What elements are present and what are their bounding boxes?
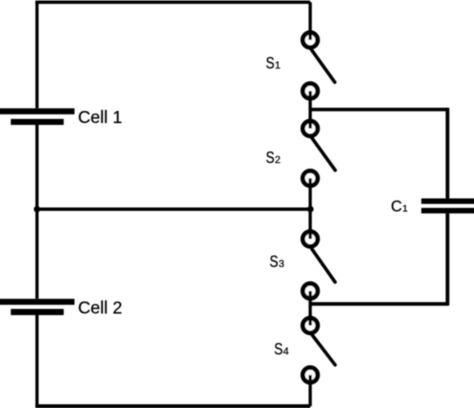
svg-text:S: S	[270, 253, 279, 271]
wire S2 bottom to S3 top	[309, 178, 312, 239]
wire left bus upper segment	[35, 1, 38, 109]
svg-text:C: C	[391, 198, 402, 215]
capacitor C1	[421, 198, 474, 213]
svg-text:Cell 2: Cell 2	[78, 297, 122, 317]
wire top bus	[35, 1, 310, 4]
svg-text:S: S	[274, 340, 283, 358]
svg-text:3: 3	[279, 259, 285, 270]
wire capacitor lower lead	[446, 213, 450, 305]
battery Cell 2	[0, 299, 75, 315]
wire S1 bottom to S2 top	[309, 91, 312, 129]
svg-text:1: 1	[275, 61, 281, 72]
junction dot right (middle bus to switch chain)	[307, 206, 313, 212]
svg-text:Cell 1: Cell 1	[78, 107, 122, 127]
svg-text:2: 2	[275, 155, 281, 166]
junction dot left (between cells)	[34, 206, 40, 212]
wire S1-S2 junction to capacitor top	[310, 108, 447, 112]
switch S2	[303, 120, 335, 186]
switch S1	[303, 2, 335, 98]
switch S4	[303, 316, 335, 383]
label S3	[270, 253, 285, 271]
battery Cell 1	[0, 108, 75, 125]
wire left bus middle segment	[35, 125, 38, 299]
wire S3 bottom to S4 top	[309, 291, 312, 326]
label S4	[274, 340, 289, 358]
wire S4 bottom to bottom bus	[309, 375, 312, 406]
svg-text:S: S	[266, 149, 275, 167]
wire left bus lower segment	[35, 315, 38, 406]
label C1	[391, 198, 408, 215]
svg-text:S: S	[266, 55, 275, 73]
label S2	[266, 149, 281, 167]
wire capacitor upper lead	[446, 108, 450, 199]
label S1	[266, 55, 281, 73]
wire S3-S4 junction to capacitor bottom	[310, 302, 447, 306]
switch S3	[303, 229, 335, 298]
svg-text:1: 1	[402, 203, 407, 214]
svg-text:4: 4	[283, 346, 289, 357]
wire middle bus (between cells to switch chain)	[37, 208, 310, 211]
wire bottom bus	[35, 404, 310, 408]
